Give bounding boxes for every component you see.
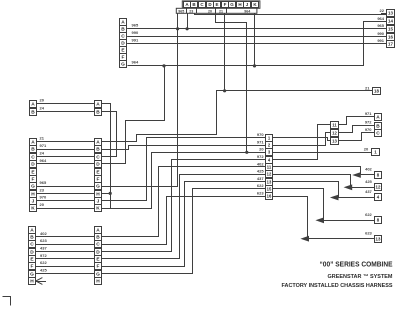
svg-text:G: G [31,184,35,190]
wire 623 (X5 C-C) [36,238,94,244]
wire 402 (X5-B to X6-11) [102,167,266,237]
svg-text:11: 11 [267,165,272,170]
svg-text:22: 22 [380,8,385,13]
svg-text:971: 971 [365,111,372,116]
wire 965 (X4 G-G) [36,180,94,187]
svg-text:23: 23 [40,187,45,192]
subtitle FACTORY INSTALLED CHASSIS HARNESS [282,283,393,289]
wire 20 (X3 A-A) [36,97,94,103]
svg-text:437: 437 [365,189,372,194]
svg-text:971: 971 [257,140,264,145]
svg-text:C: C [31,155,35,161]
svg-text:F: F [224,2,227,7]
connector X7 (pins 13-17, right edge) [387,10,395,48]
wire 965 (X2-B to pin 15) [127,23,386,29]
svg-text:A: A [31,102,35,108]
label 971 at X6 pin 2 [257,140,264,145]
svg-text:D: D [96,162,100,168]
svg-text:623: 623 [257,190,264,195]
svg-text:B: B [96,110,100,116]
wire 437 (X5-F to X6-13) [102,182,266,267]
wire 623 (X5-C to X6-16) [102,197,266,245]
svg-text:F: F [97,177,100,183]
svg-text:F: F [97,264,100,270]
wire 437 (X5 D-D) [36,246,94,252]
svg-text:972: 972 [257,154,264,159]
connector X8 (pins 11-13) [331,122,339,145]
wire 24 (X4 C-C) [36,151,94,157]
svg-text:A: A [31,140,35,146]
svg-text:E: E [215,2,218,7]
svg-text:FACTORY INSTALLED CHASSIS HARN: FACTORY INSTALLED CHASSIS HARNESS [282,283,393,289]
svg-text:622: 622 [257,183,264,188]
wire 623 (X6-16 to pin 13) [273,197,382,243]
svg-text:972: 972 [40,253,47,258]
label 972 at X6 pin 4 [257,154,264,159]
label 970 at X6 pin 1 [257,132,264,137]
svg-text:971: 971 [40,143,47,148]
wire 971 (X8-11 to X9-A) [339,111,375,125]
label 402 at X6 pin 11 [257,161,264,166]
svg-text:B: B [31,110,35,116]
connector X3b (2-pin A-B right) [95,101,102,116]
svg-text:F: F [32,177,35,183]
svg-text:21: 21 [365,85,370,90]
wire 970 (X8-13 to X9-C) [339,127,375,141]
wire 972 (X5-D to X6-4) [102,160,266,252]
svg-text:D: D [31,162,35,168]
svg-text:A: A [121,20,125,26]
svg-text:13: 13 [267,180,272,185]
svg-text:11: 11 [332,123,337,128]
svg-text:991: 991 [132,37,139,42]
wire 21 (X4 A-A) [36,136,94,142]
svg-text:A: A [96,140,100,146]
wire 964 branch to X4-D [102,66,165,164]
svg-text:17: 17 [388,42,393,47]
wire 23 stub X4-H [101,193,110,195]
label 622 at X6 pin 15 [257,183,264,188]
junction on wire 964 [162,64,165,67]
wire 425 (X5-E to X6-12) [102,175,266,259]
svg-text:965: 965 [178,9,184,13]
svg-text:425: 425 [40,268,47,273]
svg-text:J: J [32,199,35,205]
connector X2 (7-pin A-G) [120,19,127,68]
svg-text:G: G [96,184,100,190]
svg-text:F: F [122,55,125,61]
wire 964 drop from X1 [254,13,256,66]
title text 00 SERIES COMBINE [320,259,393,268]
wire 22 stub to pin 13 [380,8,387,13]
wire 23 (X4 H-H) [36,187,94,193]
wire 20 (X6-3 to pin 1 right) [273,147,372,153]
svg-text:A: A [96,102,100,108]
wire 22 (X1 strip to pin 13) [195,14,387,15]
wire 972 (X8-12 to X9-B) [339,120,375,133]
svg-text:972: 972 [365,120,372,125]
label 20 at X6 pin 3 [259,147,264,152]
svg-text:425: 425 [257,169,264,174]
svg-text:14: 14 [388,19,393,24]
connector X1 wire-number strip (965/23/20/21/964) [176,8,257,13]
wire 971 (X4-B to X6-2) [102,146,266,150]
wire 972 (X5 E-E) [36,253,94,259]
svg-text:20: 20 [40,97,45,102]
svg-text:H: H [238,2,241,7]
svg-text:C: C [96,242,100,248]
wire 20 branch X3a-A down to X4-K [102,104,112,209]
wire 402 (X6-11 to pin 8) [273,167,382,179]
wire 21 (to pin 18) [225,90,373,92]
svg-text:623: 623 [365,230,372,235]
svg-text:18: 18 [374,89,379,94]
svg-text:G: G [30,272,34,278]
svg-text:622: 622 [40,260,47,265]
wire 437 (X6-13 to pin 4) [273,182,382,201]
svg-text:B: B [31,147,35,153]
svg-text:964: 964 [244,9,250,13]
svg-text:C: C [376,131,380,137]
connector X3a (2-pin A-B left) [30,101,37,116]
svg-text:965: 965 [132,23,139,28]
wire 971 (X4 B-B) [36,143,94,149]
svg-text:K: K [96,206,100,212]
svg-text:16: 16 [267,194,272,199]
svg-text:H: H [31,192,35,198]
svg-text:402: 402 [40,231,47,236]
svg-text:B: B [121,27,125,33]
svg-text:970: 970 [365,127,372,132]
connector X5b (8-pin A-H right) [95,227,102,285]
wire 965 drop from X1 to X4-G [102,14,178,187]
wire 970 (X4 J-J) [36,195,94,201]
label 965 at pin 15 [377,23,386,28]
wire 970 (X4-J to X6-1) [102,138,266,201]
svg-text:20: 20 [208,9,212,13]
svg-text:G: G [121,62,125,68]
connector pin 18 with wire 21 label [365,85,380,94]
svg-text:990: 990 [132,30,139,35]
wire 964 (X4 D-D) [36,158,94,164]
svg-text:A: A [30,228,34,234]
svg-text:13: 13 [332,139,337,144]
connector X4b (10-pin A-K right) [95,139,102,212]
svg-text:24: 24 [40,151,45,156]
wire 622 (X6-15 to pin 8) [273,189,382,224]
svg-text:15: 15 [388,27,393,32]
junction on wire 965 [176,27,179,30]
svg-text:16: 16 [388,35,393,40]
svg-text:C: C [121,34,125,40]
svg-text:K: K [31,206,35,212]
wire 990 (X2-C to pin 16) [127,30,386,37]
wire 402 (X5 B-B) [36,231,94,237]
svg-text:H: H [96,192,100,198]
connector X6 (pins 1-4 and 11-16) [266,135,273,200]
label 623 at X6 pin 16 [257,190,264,195]
svg-text:425: 425 [365,179,372,184]
svg-text:H: H [96,279,100,285]
wire 622 (X5-G to X6-15) [102,189,266,274]
page corner mark [3,297,11,306]
svg-text:“00” SERIES COMBINE: “00” SERIES COMBINE [320,259,393,268]
wire 20 drop from X1 to junction [216,14,249,154]
wire 24 (X3 B-B) [36,106,94,112]
svg-text:20: 20 [259,147,264,152]
connector pin 1 (right edge) [372,149,380,156]
svg-text:12: 12 [267,172,272,177]
svg-text:A: A [96,228,100,234]
svg-text:991: 991 [377,38,384,43]
wire 425 (X6-12 to pin 12) [273,175,382,191]
wire 21 branch to X4-A [102,91,225,142]
svg-text:B: B [376,124,380,130]
subtitle GREENSTAR TM SYSTEM [328,274,394,280]
svg-text:B: B [96,235,100,241]
label 991 at pin 17 [377,38,386,43]
wire X6-1 to X8-13 [273,138,331,141]
wire 24 branch X3a-B down to X4-C [102,112,117,157]
wire 991 (X2-D to pin 17) [127,37,386,43]
svg-text:15: 15 [267,187,272,192]
svg-text:B: B [30,235,34,241]
label 990 at pin 16 [377,31,386,37]
svg-text:437: 437 [40,246,47,251]
wire 965 pin drop from X1 with junction [186,13,189,30]
svg-text:G: G [230,2,234,7]
svg-text:D: D [121,41,125,47]
svg-text:965: 965 [377,23,384,28]
svg-text:13: 13 [376,237,381,242]
connector X1 (10-pin A-K header) [182,1,260,8]
wire X6-2 to X8-12 [273,133,331,146]
svg-text:A: A [376,115,380,121]
svg-text:990: 990 [377,31,384,36]
wire 964 (X2-G to pin 14) [128,22,387,66]
svg-text:964: 964 [377,16,384,21]
open arrow at X5a pin H [36,278,46,285]
svg-text:402: 402 [365,167,372,172]
svg-text:F: F [31,264,34,270]
svg-text:964: 964 [132,60,139,65]
wire 425 (X5 G-G) [36,268,94,274]
svg-text:21: 21 [40,136,45,141]
svg-text:GREENSTAR ™ SYSTEM: GREENSTAR ™ SYSTEM [328,274,394,280]
label 425 at X6 pin 12 [257,169,264,174]
svg-text:12: 12 [376,185,381,190]
svg-text:G: G [96,272,100,278]
svg-text:24: 24 [40,106,45,111]
svg-text:622: 622 [365,212,372,217]
svg-text:B: B [96,147,100,153]
svg-text:13: 13 [388,11,393,16]
wire 21 drop from X1 with junction [223,14,226,93]
svg-text:23: 23 [189,9,193,13]
connector X5a (8-pin A-H left) [29,227,36,285]
svg-text:437: 437 [257,176,264,181]
svg-text:970: 970 [257,132,264,137]
svg-text:970: 970 [40,195,47,200]
connector X4a (10-pin A-K left) [30,139,37,212]
svg-text:H: H [30,279,34,285]
label 437 at X6 pin 13 [257,176,264,181]
wire 20 (X4-K to X6-3) [102,153,266,209]
svg-text:21: 21 [219,9,223,13]
svg-text:965: 965 [40,180,47,185]
svg-text:C: C [96,155,100,161]
connector X9 (pins A-C) [375,114,382,137]
svg-text:12: 12 [332,131,337,136]
wire X6-4 to X8-11 [273,125,331,160]
svg-text:D: D [96,250,100,256]
svg-text:D: D [30,250,34,256]
svg-text:964: 964 [40,158,47,163]
junction on wire 964 at X1 drop [253,64,256,67]
label 964 at pin 14 [377,16,384,21]
svg-text:20: 20 [40,202,45,207]
svg-text:20: 20 [364,147,369,152]
svg-text:402: 402 [257,161,264,166]
wire 622 (X5 F-F) [36,260,94,266]
wire 20 (X4 K-K) [36,202,94,208]
svg-text:J: J [97,199,100,205]
svg-text:623: 623 [40,238,47,243]
svg-text:C: C [30,242,34,248]
